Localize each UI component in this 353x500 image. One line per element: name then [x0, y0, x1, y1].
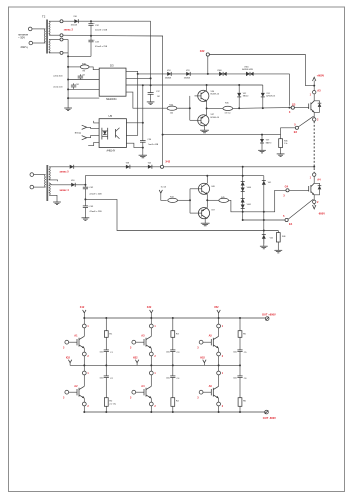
- transformer T2 secondary winding 2: [49, 40, 50, 53]
- svg-text:A2W08-342B: A2W08-342B: [242, 68, 253, 71]
- node tap4 pin circle: [60, 51, 63, 54]
- svg-text:R46: R46: [282, 236, 285, 238]
- wire gate A6: [203, 391, 211, 393]
- zener pair V400: [241, 182, 251, 192]
- wire V46 collector to lower supply rail: [206, 176, 208, 184]
- wire emitter diagonal to E3: [298, 116, 313, 127]
- wire A4g emitter to bottom rail: [150, 406, 152, 412]
- wire D3 pin wire 4: [68, 97, 99, 99]
- node X32 terminal: [206, 53, 209, 56]
- transformer T4 core: [46, 165, 48, 201]
- wire R33 to D3 top pin: [89, 67, 99, 70]
- wire gate line to G4 riser: [243, 190, 286, 212]
- svg-text:U5: U5: [109, 114, 113, 118]
- node junction r1 mid rail: [105, 364, 107, 366]
- node pin circle 1 A6: [217, 371, 221, 375]
- wire A2 emitter to bottom rail: [83, 406, 85, 412]
- wire tap1: [49, 20, 60, 22]
- svg-text:22мкФ х 50В: 22мкФ х 50В: [95, 28, 108, 31]
- wire tap1 to diode V30: [63, 20, 74, 22]
- zener pair V401: [241, 199, 251, 209]
- node junction c3 mid rail: [218, 364, 220, 366]
- node gate terminal A2: [65, 390, 69, 394]
- wire V36 collector to rail: [206, 85, 208, 90]
- node pin circle 1 A4: [313, 173, 316, 176]
- capacitor C36 on riser: [140, 85, 159, 155]
- node junction r3 top rail: [239, 317, 241, 319]
- node junction railA/C32: [90, 20, 92, 22]
- wire V46/V47 base bar: [189, 189, 191, 213]
- resistor R35: [223, 102, 233, 114]
- node pin circle 1 A3g: [149, 324, 153, 328]
- diode V45: [262, 235, 273, 240]
- svg-text:SIE20034: SIE20034: [106, 98, 117, 101]
- node pin circle 1 A3: [313, 91, 316, 94]
- svg-text:1М: 1М: [157, 96, 160, 98]
- transistor IGBT A3 with freewheel diode: [309, 94, 322, 118]
- transistor V46: [190, 183, 216, 194]
- node junction X42 rail dashed: [313, 166, 315, 168]
- svg-text:(101) 100: (101) 100: [54, 87, 64, 89]
- wire riser x150.6 (railA down to rail2): [150, 21, 152, 85]
- svg-text:КЭД: КЭД: [82, 63, 87, 65]
- input terminal arrow 2: [82, 136, 99, 140]
- node pin circle 2 A2: [82, 402, 86, 406]
- wire tap1 to diode: [49, 166, 69, 168]
- svg-text:V300: V300: [217, 70, 221, 72]
- wire V36 emitter to gate line: [206, 102, 208, 115]
- wire rail1: [138, 73, 290, 75]
- wire V36/V37 base bar: [189, 96, 191, 120]
- diode V34: [165, 70, 171, 79]
- resistor R6: [238, 378, 247, 413]
- svg-text:Н32: Н32: [133, 357, 138, 360]
- wire mid rail to pin1 A4g: [150, 365, 152, 371]
- node junction c2 top rail: [150, 317, 152, 319]
- resistor R4: [171, 378, 180, 413]
- svg-text:G3: G3: [292, 102, 296, 106]
- ground V39: [258, 150, 266, 153]
- wire gate line R35 to G3: [233, 107, 292, 110]
- svg-text:5мкФ х 63В: 5мкФ х 63В: [148, 143, 159, 146]
- power arrow -600V: [313, 204, 316, 209]
- wire bus to R33: [68, 66, 80, 68]
- wire sec1 bottom stub: [49, 180, 57, 181]
- transistor V47: [190, 208, 216, 219]
- wire left bus down to ground: [67, 40, 69, 109]
- input terminal X-in2: [29, 41, 33, 45]
- diode V38: [126, 163, 130, 169]
- node pin circle 2 A3: [313, 118, 316, 121]
- wire X42 rail right: [164, 166, 315, 168]
- ground R36: [277, 154, 285, 157]
- diode V33: [184, 70, 190, 79]
- wire tap4: [49, 52, 60, 54]
- wire rail to pin1 A5: [218, 318, 220, 324]
- ground C43: [82, 218, 90, 221]
- svg-text:G4: G4: [285, 185, 289, 189]
- wire mid bus rail: [70, 364, 240, 366]
- node pin circle 2 A3g: [149, 352, 153, 356]
- node junction r3 mid rail: [239, 364, 241, 366]
- svg-text:V32: V32: [243, 93, 246, 95]
- svg-text:Н52: Н52: [200, 357, 205, 360]
- svg-text:100н: 100н: [100, 352, 104, 354]
- node pin circle 2 A4: [313, 200, 316, 203]
- svg-text:V38: V38: [126, 163, 129, 165]
- node tap2 pin circle: [60, 34, 63, 37]
- suppressor V300: [217, 70, 226, 76]
- input terminal 4: [30, 185, 34, 189]
- capacitor C2: [100, 365, 114, 380]
- node junction V41 E4 rail: [263, 219, 265, 221]
- node terminal G4: [286, 189, 289, 192]
- wire gate A5: [203, 341, 211, 343]
- wire X32 riser: [207, 56, 209, 74]
- transistor V36: [195, 90, 219, 101]
- svg-text:47мкФ х 25В: 47мкФ х 25В: [95, 45, 108, 48]
- node pin circle 1 A4g: [149, 371, 153, 375]
- wire C42 node up to lower supply rail: [85, 176, 263, 185]
- D3 pin1 right wire to rail1 + down to U5: [126, 71, 138, 135]
- antenna input symbol: [159, 190, 167, 200]
- node junction rail1-X32: [207, 73, 209, 75]
- wire rail B tap2 to riser x163: [63, 34, 163, 37]
- wire U5 pin4 left stub: [88, 142, 99, 145]
- svg-text:V40: V40: [71, 180, 74, 182]
- node tap3 pin circle: [60, 38, 63, 41]
- wire rail to pin1 A3: [150, 318, 152, 324]
- wire U5 pin4 to C36 bottom: [126, 143, 142, 147]
- ground V37: [200, 130, 209, 133]
- ground C37: [147, 102, 155, 105]
- node junction c2 mid rail: [150, 364, 152, 366]
- wire bottom bus rail: [84, 411, 265, 413]
- node junction emitters lower: [206, 199, 208, 201]
- transistor A1: [77, 328, 84, 352]
- svg-text:V34: V34: [167, 70, 170, 72]
- capacitor C6: [233, 365, 247, 380]
- svg-text:100н: 100н: [166, 378, 170, 380]
- svg-text:OUT +600V: OUT +600V: [262, 313, 276, 317]
- ground R46: [274, 250, 282, 253]
- svg-text:IC 04: IC 04: [161, 187, 167, 189]
- svg-text:Х12: Х12: [80, 306, 85, 309]
- resistor R2: [104, 378, 116, 413]
- svg-text:V41: V41: [268, 182, 271, 184]
- power arrow +600V: [313, 77, 316, 85]
- transformer T2 core: [46, 20, 48, 54]
- D3 pin2 right wire: [126, 77, 151, 79]
- wire V40 to C42: [75, 184, 85, 186]
- svg-text:100: 100: [170, 112, 173, 114]
- resistor R5: [238, 318, 247, 350]
- svg-text:1.3к: 1.3к: [284, 143, 287, 145]
- node gate terminal A1: [65, 340, 69, 344]
- wire A6 emitter to bottom rail: [218, 406, 220, 412]
- node junction r2 top rail: [172, 317, 174, 319]
- arrow feed col2 top: [150, 310, 153, 318]
- ground C36: [139, 155, 147, 158]
- ground V47: [201, 223, 210, 226]
- transformer T4 primary winding: [44, 175, 45, 188]
- node gate terminal A4g: [132, 390, 136, 394]
- capacitor C32: [88, 21, 107, 36]
- svg-text:ВХОД: ВХОД: [75, 133, 81, 135]
- svg-text:Ю2: Ю2: [66, 357, 71, 360]
- wire G4 to gate A4: [289, 189, 309, 191]
- transistor A3 grid: [144, 328, 151, 352]
- node junction r2 bottom rail: [172, 411, 174, 413]
- capacitor C3: [166, 350, 180, 366]
- wire G3 to gate: [294, 107, 308, 109]
- svg-text:(201) 300: (201) 300: [54, 76, 64, 78]
- node junction V36 coll: [206, 84, 208, 86]
- node junction c3 bottom rail: [218, 411, 220, 413]
- wire junction to pin circle: [313, 86, 315, 91]
- svg-text:2.2 Ом: 2.2 Ом: [109, 404, 116, 406]
- wire emitter diagonal to E4: [288, 199, 313, 219]
- svg-text:запас 2: запас 2: [64, 28, 74, 32]
- svg-text:Х32: Х32: [200, 49, 205, 53]
- node junction busC: [67, 55, 69, 57]
- svg-text:47мкФ х 25В: 47мкФ х 25В: [89, 210, 102, 213]
- node junction zener col top: [242, 166, 244, 168]
- node junction emitters: [206, 107, 208, 109]
- node gate terminal A5: [199, 340, 203, 344]
- svg-text:V39: V39: [266, 140, 269, 142]
- resistor R45: [219, 197, 229, 203]
- arrow feed col1 top: [83, 310, 86, 318]
- ground bus: [64, 108, 72, 111]
- node terminal OUT+600V: [265, 317, 269, 321]
- zener V31: [261, 85, 275, 108]
- node junction c3 top rail: [218, 317, 220, 319]
- svg-text:100н: 100н: [233, 378, 237, 380]
- node junction rail1 start: [137, 73, 139, 75]
- node pin circle 2 A4g: [149, 402, 153, 406]
- resistor R33: [80, 63, 89, 72]
- transistor A6: [211, 375, 218, 402]
- transistor A2: [77, 375, 84, 402]
- wire V41 column from supply rail: [263, 176, 265, 244]
- svg-text:D3: D3: [110, 63, 114, 67]
- svg-text:1N4848: 1N4848: [184, 77, 190, 79]
- wire gate A2: [69, 391, 77, 393]
- svg-text:запас 4: запас 4: [59, 188, 69, 192]
- D3 pin4 right wire down to rail3: [126, 92, 167, 108]
- svg-text:22мкФ х 50В: 22мкФ х 50В: [89, 192, 102, 195]
- node terminal E3: [295, 126, 298, 129]
- resistor R3: [171, 318, 180, 350]
- node tap1 pin circle: [60, 20, 63, 23]
- node gate terminal A6: [199, 390, 203, 394]
- capacitor C4: [166, 365, 180, 380]
- node junction bus-R33: [67, 66, 69, 68]
- node junction zener col gate line: [242, 211, 244, 213]
- node terminal E4: [285, 218, 288, 221]
- wire rail C (C33 bottom): [68, 55, 91, 57]
- node terminal G3: [291, 106, 294, 109]
- wire top bus rail: [84, 317, 265, 319]
- node pin circle 1 A5: [217, 324, 221, 328]
- wire gate line emitters to R35: [207, 107, 223, 109]
- svg-text:R36: R36: [284, 140, 287, 142]
- wire emitter rail E3: [163, 134, 281, 136]
- diode V39: [260, 135, 271, 151]
- node junction c1 mid rail: [83, 364, 85, 366]
- wire gate A4g: [136, 391, 144, 393]
- node junction V32 top: [238, 84, 240, 86]
- node junction c2 bottom rail: [150, 411, 152, 413]
- node junction V41 bottom rail: [263, 230, 265, 232]
- diode V40: [71, 180, 75, 187]
- wire emitter junction to R45: [207, 199, 219, 201]
- resistor R34: [167, 105, 177, 115]
- transistor A4 grid: [144, 375, 151, 402]
- input terminal arrow 1: [82, 125, 99, 129]
- IC U5 box: [99, 114, 126, 153]
- wire diode V30 to C32 rail A: [78, 20, 150, 22]
- node junction zener col rail2: [242, 175, 244, 177]
- svg-text:V43: V43: [148, 163, 151, 165]
- node junction V46 coll: [206, 175, 208, 177]
- IC D3 box: [99, 63, 126, 101]
- wire sec2 bottom tap to ground: [49, 195, 57, 202]
- svg-text:А4: А4: [317, 178, 321, 182]
- wire rail to pin1 A1: [83, 318, 85, 324]
- svg-text:+600V: +600V: [317, 74, 325, 78]
- transistor A5: [211, 328, 218, 352]
- svg-text:OUT -600V: OUT -600V: [263, 416, 276, 420]
- transformer T4 secondary winding 1: [49, 167, 50, 180]
- capacitor C34 stub: [78, 74, 86, 79]
- node junction U5 pin1 riser: [142, 122, 144, 124]
- svg-text:1N4148: 1N4148: [71, 25, 77, 27]
- wire gate A1: [69, 341, 77, 343]
- wire A5 emitter to mid rail: [218, 356, 220, 366]
- transistor IGBT A4 with freewheel diode: [309, 176, 322, 200]
- node junction base-R34: [189, 107, 191, 109]
- node junction V39: [261, 134, 263, 136]
- transformer T2 primary winding: [44, 29, 45, 43]
- svg-text:20кГц: 20кГц: [21, 45, 29, 49]
- arrow feed col2 mid: [135, 360, 138, 366]
- wire X32 to +600V node: [209, 55, 313, 86]
- dashed link A3 emitter to A4 collector: [313, 121, 315, 173]
- svg-text:V301: V301: [244, 66, 248, 68]
- node terminal OUT-600V: [265, 410, 269, 414]
- svg-text:100н: 100н: [233, 352, 237, 354]
- arrow feed col3 top: [217, 310, 220, 318]
- capacitor C43: [83, 199, 102, 217]
- ground transformer: [53, 202, 61, 205]
- svg-text:V401: V401: [247, 204, 251, 206]
- svg-text:-600V: -600V: [318, 211, 325, 215]
- node gate terminal A3g: [132, 340, 136, 344]
- input terminal 3: [30, 173, 34, 177]
- wire term3 to primary: [34, 174, 46, 176]
- wire U5 pin1 left stub: [94, 121, 99, 123]
- wire emitters V46-V47: [206, 194, 208, 207]
- wire tap2: [49, 34, 60, 36]
- D3 pin3 right wire (rail2 +15V): [126, 84, 263, 86]
- wire A3g emitter to mid rail: [150, 356, 152, 366]
- capacitor C37 to ground: [148, 85, 161, 102]
- svg-text:А4Б14У: А4Б14У: [107, 150, 116, 153]
- wire R45 to gate line: [229, 200, 243, 212]
- wire R44 to base bar: [178, 199, 191, 201]
- wire D3 pin wire 3: [68, 88, 99, 90]
- node junction riser-rail2: [150, 84, 152, 86]
- suppressor V301: [242, 66, 253, 76]
- wire mid rail to pin1 A2: [83, 365, 85, 371]
- diode V37b: [70, 165, 74, 169]
- svg-text:BAV70: BAV70: [266, 141, 271, 144]
- node junction riser-emitter rail: [162, 134, 164, 136]
- resistor R36: [279, 135, 288, 154]
- node pin circle 1 A2: [82, 371, 86, 375]
- node junction c1 bottom rail: [83, 411, 85, 413]
- svg-text:V31: V31: [266, 93, 269, 95]
- wire mid rail to pin1 A6: [218, 365, 220, 371]
- node junction C36 riser-rail2: [142, 84, 144, 86]
- svg-text:T2: T2: [42, 15, 46, 19]
- zener V32: [237, 85, 248, 108]
- wire term4 to primary: [34, 186, 46, 188]
- svg-text:ВС639-16: ВС639-16: [211, 94, 219, 96]
- node junction pin2-riser: [150, 77, 152, 79]
- wire term2 to T2 primary: [33, 42, 46, 44]
- node junction G3 feed: [289, 107, 291, 109]
- diode V43: [148, 163, 152, 169]
- svg-text:SB140: SB140: [243, 96, 248, 98]
- node terminal X42: [160, 165, 163, 168]
- wire tap4 to bus: [63, 52, 68, 54]
- opto LED inside U5: [102, 128, 108, 140]
- svg-text:A2V08C16: A2V08C16: [266, 95, 275, 98]
- arrow feed col3 mid: [203, 360, 206, 366]
- capacitor C1: [100, 350, 114, 366]
- wire tap2 to diode V40: [49, 183, 71, 185]
- svg-text:ВС640-16: ВС640-16: [211, 117, 219, 119]
- svg-text:V33: V33: [186, 70, 189, 72]
- node junction bus p4: [67, 97, 69, 99]
- wire R34 to base junction: [177, 107, 190, 109]
- node junction railB/C32: [90, 35, 92, 37]
- diode V41: [262, 181, 271, 185]
- wire gate A3g: [136, 341, 144, 343]
- svg-text:Х52: Х52: [214, 306, 219, 309]
- node junction V41 gate line: [263, 211, 265, 213]
- resistor R1: [104, 318, 113, 350]
- svg-text:3.3 Ом: 3.3 Ом: [225, 113, 232, 115]
- wire riser x162.6 (railB down to X42 rail): [162, 36, 164, 165]
- svg-text:100н: 100н: [166, 352, 170, 354]
- wire zener column: [242, 167, 244, 220]
- capacitor C33: [88, 36, 107, 57]
- node junction r2 mid rail: [172, 364, 174, 366]
- svg-text:Е3: Е3: [294, 130, 298, 134]
- svg-text:запас 5: запас 5: [59, 170, 69, 174]
- node junction C42/C43 midpoint: [84, 198, 86, 200]
- resistor R46: [276, 231, 285, 251]
- wire E4 rail: [243, 219, 285, 221]
- svg-text:А3: А3: [317, 88, 321, 92]
- wire tap3: [49, 39, 60, 41]
- node junction bus p3: [67, 88, 69, 90]
- ground V45: [260, 246, 268, 249]
